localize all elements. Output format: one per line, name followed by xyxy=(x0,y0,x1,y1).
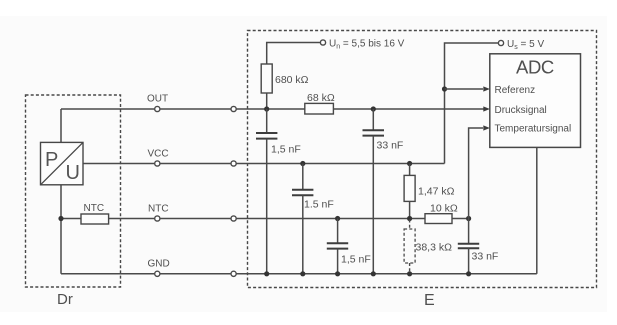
wire Un supply branch xyxy=(267,43,321,65)
wire Drucksignal arrowhead xyxy=(483,106,490,111)
svg-text:OUT: OUT xyxy=(147,94,168,105)
svg-text:1.5 nF: 1.5 nF xyxy=(304,199,334,211)
svg-text:Un = 5,5 bis 16 V: Un = 5,5 bis 16 V xyxy=(329,38,405,50)
wire Referenz feed xyxy=(445,86,490,91)
wire NTC rail right xyxy=(452,218,469,220)
label OUT xyxy=(147,94,168,105)
resistor R2 68 kOhm xyxy=(305,92,335,114)
label Dr xyxy=(57,291,73,308)
svg-text:GND: GND xyxy=(148,259,170,270)
node NTC/R3/R5 junction xyxy=(407,216,412,221)
svg-text:1,5 nF: 1,5 nF xyxy=(271,144,301,156)
resistor R1 680 kOhm xyxy=(261,64,308,93)
svg-text:U: U xyxy=(66,162,80,184)
svg-text:1,5 nF: 1,5 nF xyxy=(341,254,371,266)
wire GND rail xyxy=(61,273,537,275)
terminal VCC pin left xyxy=(155,161,160,166)
terminal NTC pin left xyxy=(155,216,160,221)
label E xyxy=(424,292,435,309)
label Us = 5 V xyxy=(507,39,544,51)
svg-text:VCC: VCC xyxy=(148,149,169,160)
terminal OUT pin left xyxy=(155,106,160,111)
capacitor C3 1,5 nF xyxy=(327,216,371,274)
svg-text:Drucksignal: Drucksignal xyxy=(495,105,547,116)
wire OUT rail xyxy=(61,108,484,110)
svg-text:E: E xyxy=(424,292,435,309)
label GND xyxy=(148,259,170,270)
resistor R4 10 kOhm xyxy=(425,203,458,224)
svg-text:NTC: NTC xyxy=(148,204,169,215)
terminal GND pin right xyxy=(231,271,236,276)
terminal Us xyxy=(498,40,503,45)
box Dr (dashed sensor enclosure) xyxy=(26,95,121,287)
capacitor C5 33 nF xyxy=(458,219,499,274)
node C1 GND junction xyxy=(264,271,269,276)
label Un = 5,5 bis 16 V xyxy=(329,38,405,50)
terminal VCC pin right xyxy=(231,161,236,166)
box E (dashed evaluation-circuit enclosure) xyxy=(248,31,597,288)
wire ADC ground return xyxy=(536,147,538,273)
svg-text:P: P xyxy=(45,149,58,171)
svg-text:68 kΩ: 68 kΩ xyxy=(307,92,335,104)
resistor R3 1,47 kOhm xyxy=(404,164,455,219)
svg-text:Temperatursignal: Temperatursignal xyxy=(495,124,572,135)
node C5 GND junction xyxy=(466,271,471,276)
wire Temperatursignal feed xyxy=(469,125,490,218)
node OUT/C4 junction xyxy=(371,106,376,111)
wire NTC rail left xyxy=(61,218,81,220)
node Referenz junction xyxy=(442,86,447,91)
node VCC/R3 junction xyxy=(407,161,412,166)
wire sensor riser xyxy=(60,109,62,274)
svg-text:Dr: Dr xyxy=(57,291,73,308)
node C3 GND junction xyxy=(335,271,340,276)
svg-text:Referenz: Referenz xyxy=(495,85,536,96)
terminal GND pin left xyxy=(155,271,160,276)
capacitor C2 1.5 nF xyxy=(292,161,334,274)
svg-text:33 nF: 33 nF xyxy=(377,140,404,152)
svg-text:33 nF: 33 nF xyxy=(472,251,499,263)
node sensor GND junction xyxy=(58,216,63,221)
label NTC xyxy=(148,204,169,215)
wire Us supply branch xyxy=(445,43,499,164)
wire NTC rail mid xyxy=(109,218,425,220)
node OUT/R1 junction xyxy=(264,106,269,111)
svg-text:1,47 kΩ: 1,47 kΩ xyxy=(418,186,455,198)
wire R1 to OUT xyxy=(266,93,268,109)
svg-text:10 kΩ: 10 kΩ xyxy=(430,203,458,215)
transducer P/U xyxy=(41,142,84,184)
svg-text:680 kΩ: 680 kΩ xyxy=(275,74,309,86)
terminal OUT pin right xyxy=(231,106,236,111)
terminal NTC pin right xyxy=(231,216,236,221)
node NTC/C5 junction xyxy=(466,216,471,221)
node C2 GND junction xyxy=(300,271,305,276)
node C4 GND junction xyxy=(371,271,376,276)
op-amp U1 ADC block xyxy=(490,54,581,148)
svg-text:38,3 kΩ: 38,3 kΩ xyxy=(416,242,453,254)
resistor R5 38,3 kOhm (dashed) xyxy=(404,220,452,274)
svg-text:Us = 5 V: Us = 5 V xyxy=(507,39,544,51)
svg-text:NTC: NTC xyxy=(84,203,105,214)
label VCC xyxy=(148,149,169,160)
capacitor C1 1,5 nF xyxy=(256,109,301,274)
capacitor C4 33 nF xyxy=(363,109,404,274)
terminal Un xyxy=(320,40,325,45)
wire VCC rail xyxy=(83,163,445,165)
svg-text:ADC: ADC xyxy=(516,57,554,78)
resistor NTC xyxy=(81,203,109,224)
node R5 GND junction xyxy=(407,271,412,276)
